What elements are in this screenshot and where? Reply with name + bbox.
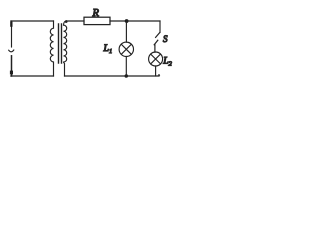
wire resistor to right corner — [110, 20, 160, 22]
node bottom-right wire end dot — [158, 74, 160, 76]
transformer T1 secondary winding — [64, 21, 67, 76]
wire L1 lower lead — [125, 57, 127, 77]
wire top-left horizontal — [11, 20, 54, 22]
svg-text:R: R — [92, 8, 100, 19]
wire bottom-right horizontal — [65, 75, 160, 77]
wire secondary to resistor — [66, 20, 84, 22]
wire top-right vertical — [159, 21, 161, 33]
switch S — [154, 33, 160, 53]
node junction bottom of L1 branch — [125, 74, 129, 78]
ac source lower terminal blob — [10, 71, 13, 75]
wire L2 lower lead — [155, 66, 157, 76]
ac source tilde — [9, 50, 14, 52]
lamp L2 — [149, 52, 163, 66]
svg-text:L1: L1 — [103, 43, 113, 55]
lamp L1 — [119, 42, 133, 56]
transformer T1 core — [59, 24, 62, 63]
ac source upper terminal tick — [10, 22, 12, 27]
resistor R — [84, 17, 110, 24]
svg-text:S: S — [163, 34, 168, 44]
node junction top of L1 branch — [125, 19, 129, 23]
svg-text:L2: L2 — [162, 56, 172, 68]
node secondary top terminal — [65, 20, 68, 23]
transformer T1 primary winding — [50, 21, 53, 76]
ac source upper lead — [11, 21, 13, 47]
wire bottom-left horizontal — [11, 75, 54, 77]
ac source lower lead — [11, 56, 13, 76]
wire L1 upper lead — [125, 21, 127, 42]
